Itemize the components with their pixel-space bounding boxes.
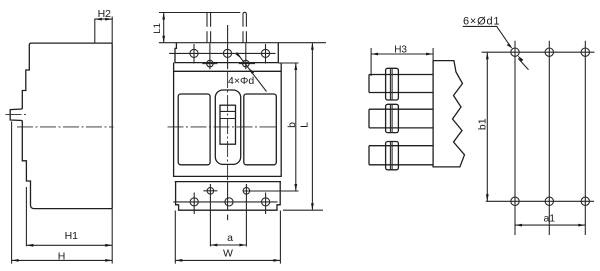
svg-text:a: a <box>227 232 233 244</box>
svg-text:W: W <box>223 248 233 260</box>
svg-text:H3: H3 <box>394 45 407 56</box>
svg-text:H2: H2 <box>98 8 112 20</box>
svg-text:a1: a1 <box>543 213 555 225</box>
svg-text:L1: L1 <box>152 23 163 34</box>
svg-text:L: L <box>299 122 311 128</box>
svg-text:4×Φd: 4×Φd <box>228 75 254 87</box>
svg-text:b: b <box>286 122 298 128</box>
svg-text:b1: b1 <box>476 118 488 130</box>
svg-text:H: H <box>58 250 66 262</box>
svg-text:6×Ød1: 6×Ød1 <box>463 15 500 27</box>
svg-text:H1: H1 <box>65 230 79 242</box>
